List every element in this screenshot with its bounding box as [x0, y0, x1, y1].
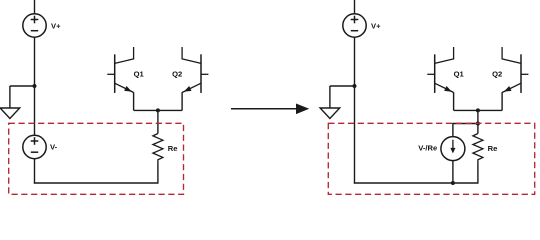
wire resistor top to emitter node — [157, 110, 159, 133]
arrow between circuits — [231, 104, 309, 115]
ground (right) — [320, 108, 340, 119]
resistor Re — [153, 134, 163, 164]
node junction to ground branch (right) — [353, 84, 357, 88]
wire top feed to V+ (right) — [354, 0, 356, 14]
transistor Q1 — [107, 47, 133, 93]
wire ground branch vertical (right) — [329, 86, 331, 108]
wire resistor bottom lead — [157, 163, 159, 184]
wire main rail down (right) — [354, 37, 356, 183]
dashed highlight box left — [9, 123, 184, 194]
voltage source V+ — [23, 14, 46, 37]
transistor Q2 — [182, 47, 208, 93]
svg-text:Re: Re — [168, 144, 178, 153]
wire Q2 emitter vertical (right) — [501, 92, 503, 110]
wire emitter join horizontal — [134, 109, 183, 111]
wire Q1 emitter vertical — [133, 92, 135, 110]
svg-text:V+: V+ — [371, 21, 381, 30]
wire bottom horizontal (right) — [354, 182, 478, 184]
svg-text:Q1: Q1 — [454, 69, 465, 78]
node emitter junction (right) — [476, 108, 480, 112]
wire branch to current source top (right) — [453, 124, 478, 138]
svg-text:V+: V+ — [51, 21, 61, 30]
svg-text:Q2: Q2 — [492, 69, 502, 78]
resistor Re (right) — [473, 134, 483, 164]
wire bottom horizontal — [34, 182, 158, 184]
wire V- bottom down — [34, 159, 36, 184]
node current source bottom junction (right) — [451, 181, 455, 185]
voltage source V- — [23, 135, 46, 158]
wire Q2 emitter vertical — [181, 92, 183, 110]
svg-text:Re: Re — [488, 144, 498, 153]
svg-text:V-/Re: V-/Re — [418, 144, 437, 153]
wire resistor bottom lead (right) — [477, 163, 479, 184]
transistor Q2 (right) — [502, 47, 528, 93]
node junction to ground branch — [33, 84, 37, 88]
wire Q1 emitter vertical (right) — [453, 92, 455, 110]
wire ground branch horizontal — [10, 85, 35, 87]
wire resistor top to emitter node (right) — [477, 110, 479, 133]
wire emitter join horizontal (right) — [454, 109, 503, 111]
voltage source V+ (right) — [343, 14, 366, 37]
transistor Q1 (right) — [427, 47, 453, 93]
node emitter junction — [156, 108, 160, 112]
current source V-/Re — [441, 137, 465, 161]
wire ground branch horizontal (right) — [330, 85, 355, 87]
wire ground branch vertical — [9, 86, 11, 108]
svg-text:V-: V- — [50, 143, 58, 152]
node branch junction above resistor (right) — [476, 122, 480, 126]
wire top feed to V+ — [34, 0, 36, 14]
wire current source bottom (right) — [452, 160, 454, 183]
wire V+ down to V- — [34, 37, 36, 135]
dashed highlight box right — [328, 123, 534, 194]
svg-text:Q1: Q1 — [134, 69, 145, 78]
ground — [0, 108, 20, 119]
svg-text:Q2: Q2 — [172, 69, 182, 78]
